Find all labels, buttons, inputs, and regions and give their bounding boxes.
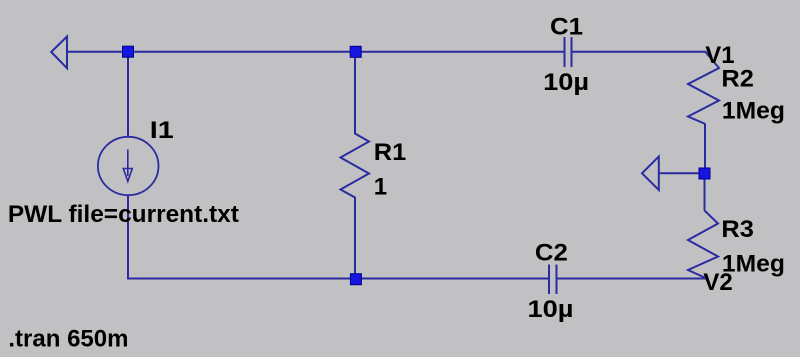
junction at middle-right node xyxy=(699,168,710,179)
wire middle junction to R3 top lead xyxy=(704,174,706,211)
svg-text:C2: C2 xyxy=(535,240,568,267)
svg-text:I1: I1 xyxy=(150,117,174,144)
svg-text:R3: R3 xyxy=(721,216,754,243)
wire middle arrow to junction xyxy=(659,172,701,174)
capacitor C1 left plate xyxy=(564,37,566,67)
wire bottom rail left segment (I1 corner to C2 left plate) xyxy=(128,196,548,279)
svg-text:V2: V2 xyxy=(703,269,732,296)
current source I1 circle xyxy=(98,137,159,195)
capacitor C2 left plate xyxy=(548,265,550,295)
svg-text:10µ: 10µ xyxy=(528,296,574,323)
svg-text:R1: R1 xyxy=(374,139,407,166)
port arrow middle-right xyxy=(642,157,659,191)
junction at top-left node xyxy=(123,46,134,57)
resistor R3 body xyxy=(688,211,718,278)
svg-text:R2: R2 xyxy=(721,66,754,93)
svg-text:.tran 650m: .tran 650m xyxy=(8,325,128,352)
svg-text:1Meg: 1Meg xyxy=(722,98,785,125)
resistor R1 body xyxy=(341,52,370,279)
wire top rail left segment (arrow to C1 left plate) xyxy=(66,51,564,53)
resistor R2 body xyxy=(688,52,719,124)
capacitor C2 right plate xyxy=(556,265,558,295)
current source I1 arrow shaft xyxy=(127,150,129,177)
wire R2 bottom lead to middle junction xyxy=(704,124,706,174)
svg-text:PWL file=current.txt: PWL file=current.txt xyxy=(8,201,239,228)
junction at R1 top node xyxy=(350,46,361,57)
svg-text:1: 1 xyxy=(374,173,387,200)
current source I1 arrowhead xyxy=(123,169,132,182)
svg-text:C1: C1 xyxy=(550,13,583,40)
wire left rail drop from top junction to I1 xyxy=(127,52,129,137)
capacitor C1 right plate xyxy=(571,37,573,67)
port arrow top-left xyxy=(51,37,67,69)
junction at R1 bottom node xyxy=(350,274,361,285)
wire top rail right segment (C1 right plate to V1 corner) xyxy=(573,51,707,53)
svg-text:10µ: 10µ xyxy=(543,69,589,96)
wire bottom rail right segment (C2 right plate to V2 corner) xyxy=(558,278,706,280)
